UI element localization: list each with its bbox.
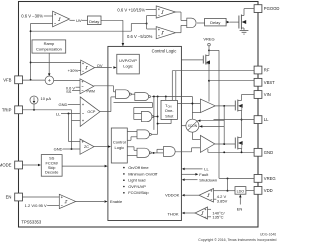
svg-text:EN: EN	[237, 206, 243, 211]
svg-text:VREG: VREG	[203, 36, 214, 41]
svg-text:Logic: Logic	[123, 64, 133, 69]
svg-text:Logic: Logic	[115, 145, 125, 150]
svg-text:Delay: Delay	[89, 19, 99, 24]
svg-text:VFB: VFB	[3, 77, 11, 82]
svg-text:GND: GND	[59, 102, 68, 107]
svg-text:LL: LL	[204, 167, 209, 172]
svg-text:0.6 V −30%: 0.6 V −30%	[21, 13, 43, 18]
svg-text:THOK: THOK	[167, 211, 178, 216]
svg-text:GND: GND	[54, 147, 63, 152]
svg-text:OVP/UVP: OVP/UVP	[128, 184, 146, 189]
svg-text:LL: LL	[56, 111, 61, 116]
svg-text:Copyright © 2016, Texas Instru: Copyright © 2016, Texas Instruments Inco…	[198, 238, 276, 242]
svg-text:10 µA: 10 µA	[41, 96, 52, 101]
svg-text:UVP/OVP: UVP/OVP	[119, 58, 137, 63]
svg-text:XCON: XCON	[188, 124, 198, 128]
svg-text:EN: EN	[6, 195, 12, 200]
svg-text:OCP: OCP	[87, 110, 96, 114]
svg-text:1.2 V/0.95 V: 1.2 V/0.95 V	[25, 203, 47, 208]
svg-text:VBST: VBST	[264, 80, 275, 85]
svg-text:UDG-1646: UDG-1646	[260, 233, 276, 237]
svg-text:VREG: VREG	[264, 176, 276, 181]
svg-text:OV: OV	[97, 63, 103, 68]
svg-text:TRIP: TRIP	[2, 107, 12, 112]
svg-text:0.6 V −5/10%: 0.6 V −5/10%	[127, 34, 153, 39]
svg-text:Compensation: Compensation	[36, 46, 62, 51]
svg-text:135°C: 135°C	[212, 215, 223, 220]
svg-text:SS: SS	[66, 89, 72, 94]
svg-text:VIN: VIN	[264, 92, 271, 97]
svg-text:Shot: Shot	[165, 113, 174, 118]
svg-text:ZC: ZC	[84, 145, 89, 149]
svg-text:Minimum On/Off: Minimum On/Off	[128, 171, 158, 176]
svg-text:FCCM/Skip: FCCM/Skip	[128, 190, 149, 195]
svg-text:GND: GND	[264, 150, 273, 155]
svg-text:+30%: +30%	[68, 68, 79, 73]
svg-text:Fault: Fault	[199, 172, 209, 177]
svg-text:PWM: PWM	[87, 90, 95, 94]
svg-text:VDDOK: VDDOK	[165, 193, 180, 198]
svg-text:MODE: MODE	[0, 163, 12, 168]
svg-text:On/Off time: On/Off time	[128, 165, 149, 170]
svg-text:Delay: Delay	[210, 20, 220, 25]
svg-text:Light load: Light load	[128, 178, 145, 183]
svg-text:UV: UV	[76, 18, 82, 23]
svg-text:LDO: LDO	[237, 190, 245, 194]
svg-text:VDD: VDD	[264, 188, 273, 193]
svg-text:TPS53353: TPS53353	[21, 220, 41, 225]
svg-text:Enable: Enable	[110, 199, 122, 204]
svg-text:Shutdown: Shutdown	[199, 177, 217, 182]
svg-text:LL: LL	[264, 117, 269, 122]
svg-text:Decode: Decode	[45, 170, 58, 175]
svg-text:RF: RF	[264, 68, 270, 73]
svg-text:0.6 V +10/15%: 0.6 V +10/15%	[117, 8, 145, 13]
svg-text:PGOOD: PGOOD	[264, 6, 280, 11]
svg-text:3.85V: 3.85V	[217, 198, 228, 203]
svg-text:Control Logic: Control Logic	[152, 49, 177, 54]
